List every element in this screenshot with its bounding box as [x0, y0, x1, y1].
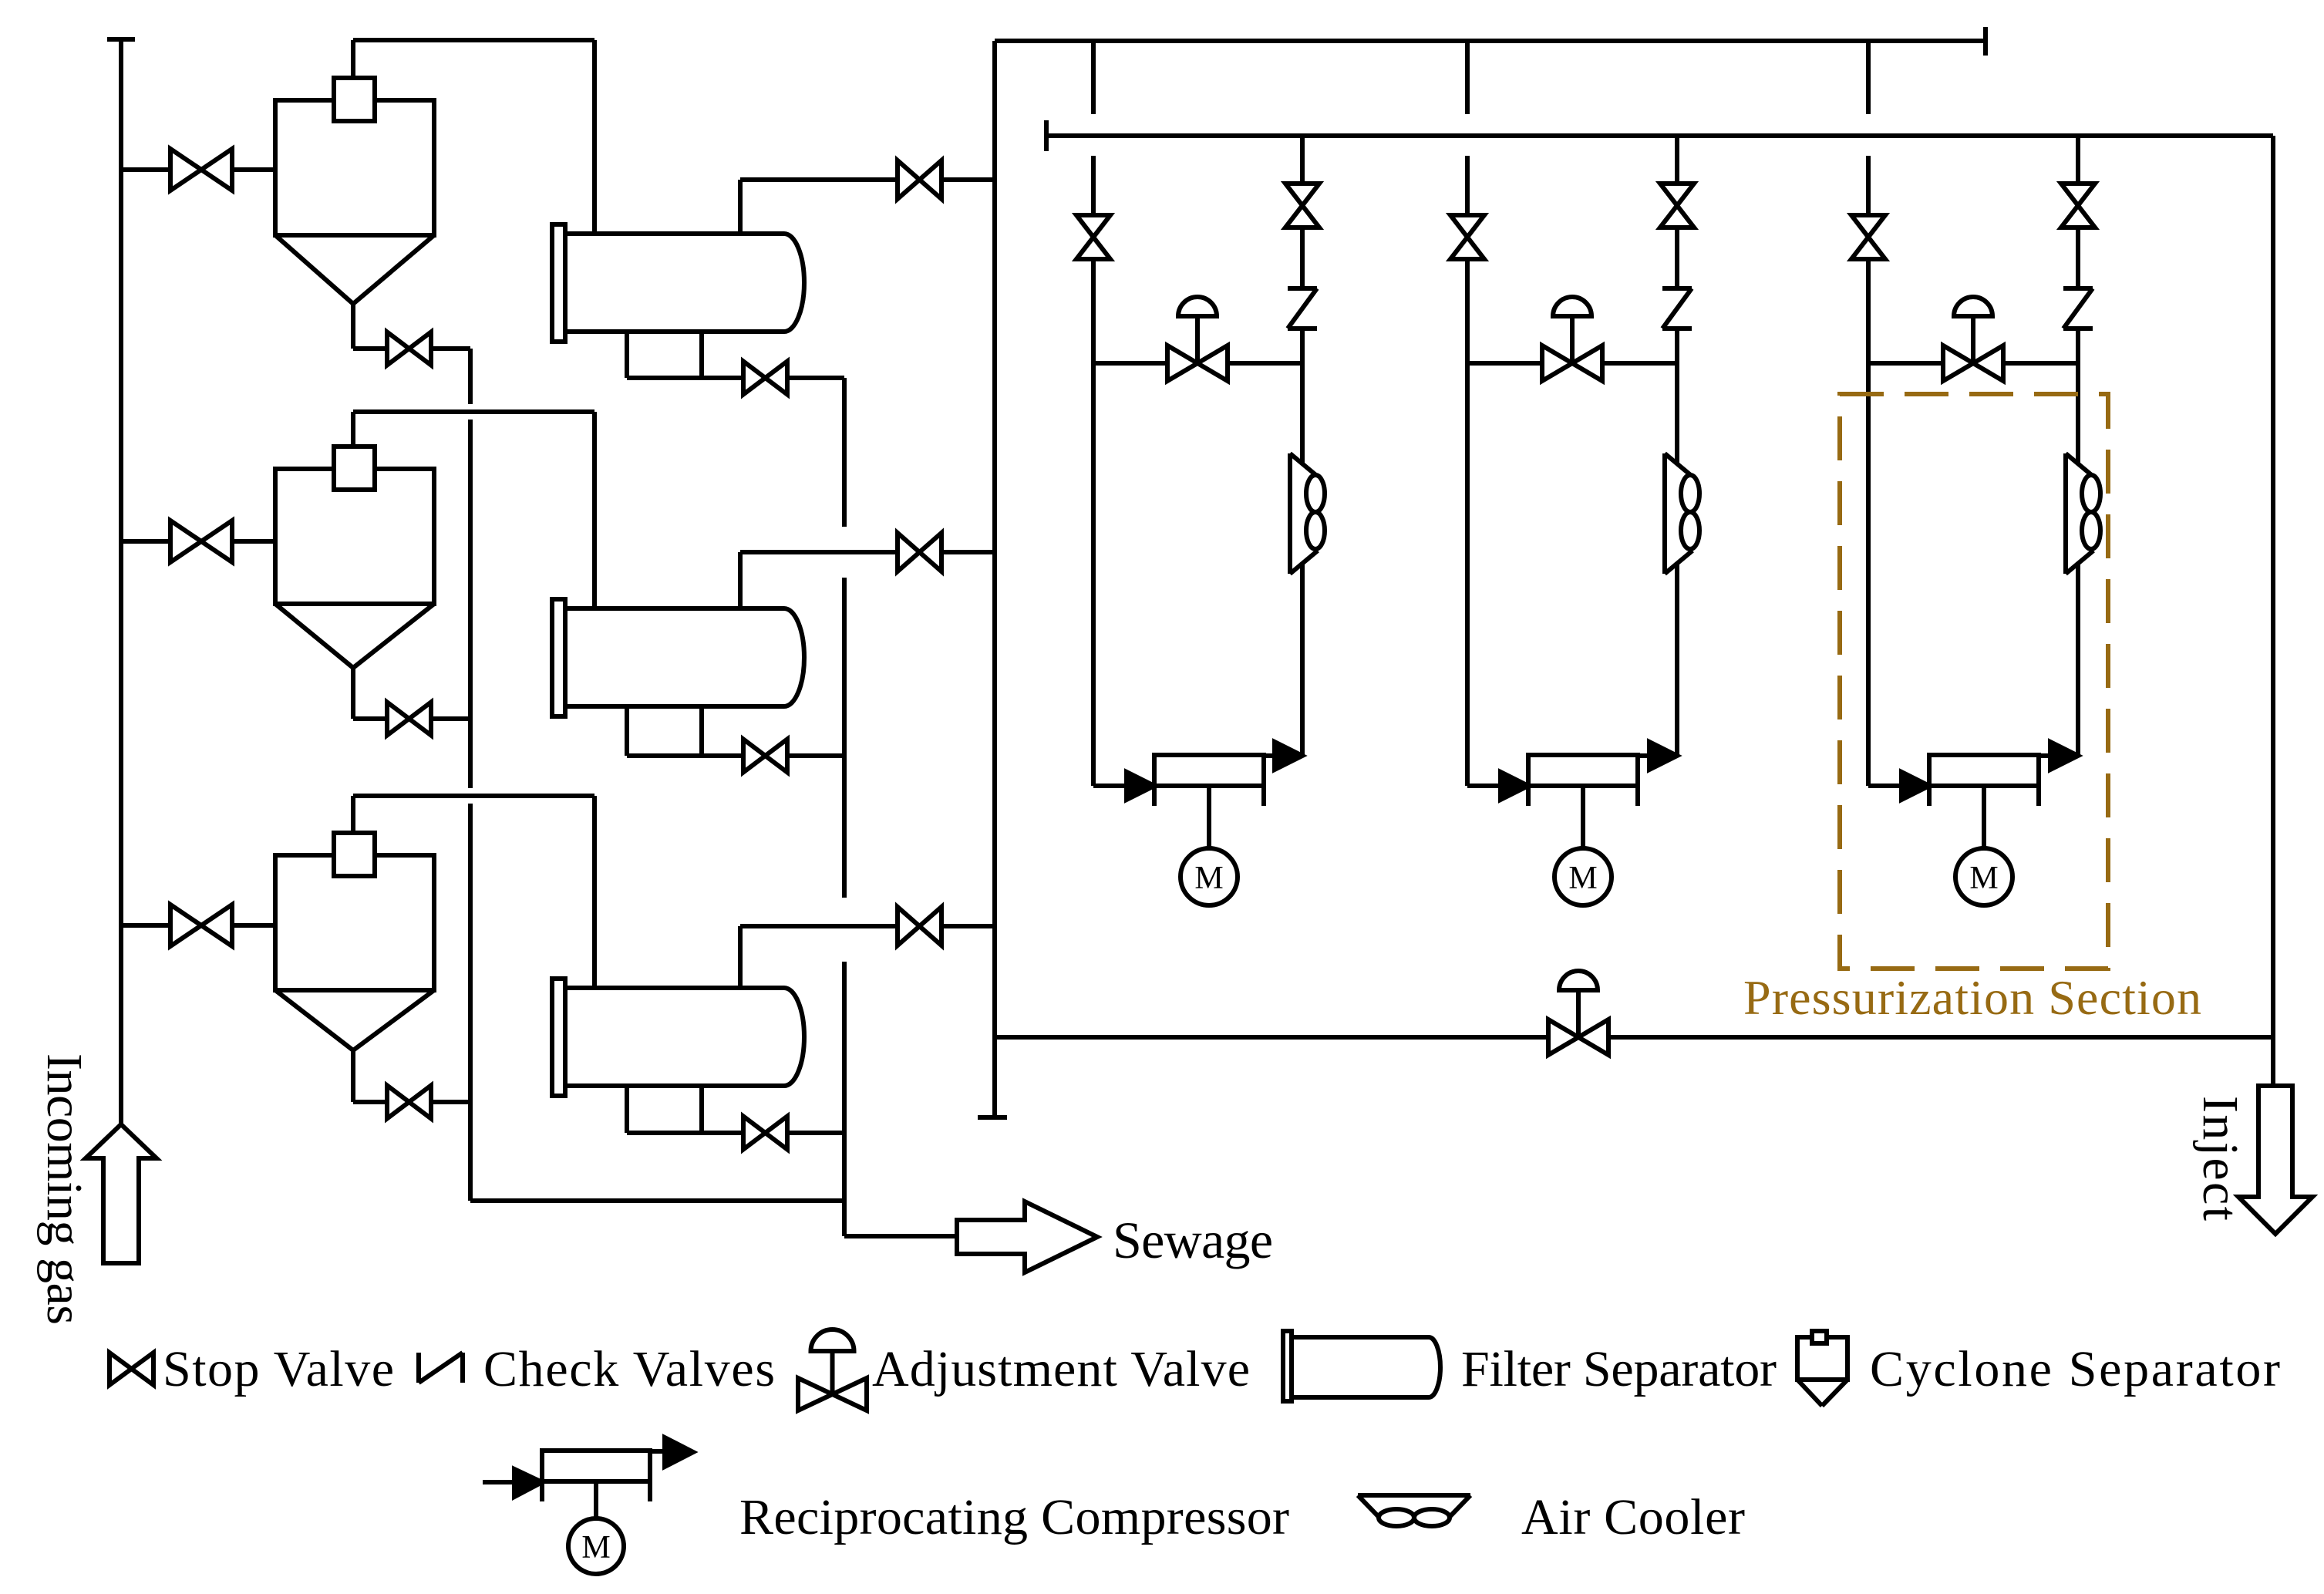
stop valve: cyclone 3 drain [387, 1086, 431, 1119]
legend: air cooler symbol [1358, 1495, 1470, 1526]
motor M1 [1181, 786, 1238, 905]
wire: incoming gas main header vertical [119, 39, 123, 1124]
stop valve: train 1 discharge [1285, 184, 1319, 227]
wire: cyclone drain header (segment 3) [468, 804, 473, 1201]
wire: filter 1 outlet riser [738, 180, 743, 234]
wire: filter 1 boot right leg [699, 332, 704, 378]
wire: filter drain header (segment 1) [842, 378, 847, 527]
wire: recycle line (right of valve) [1608, 1035, 2273, 1040]
legend: filter separator symbol [1283, 1331, 1440, 1401]
svg-text:Check Valves: Check Valves [483, 1341, 775, 1397]
stop valve: train 2 discharge [1660, 184, 1694, 227]
wire: train 2 discharge column mid [1675, 227, 1679, 288]
wire: cyclone 2 outlet riser [351, 412, 355, 447]
svg-text:Reciprocating Compressor: Reciprocating Compressor [739, 1489, 1289, 1545]
wire: train 1 suction stub from manifold [1091, 41, 1096, 114]
svg-text:Sewage: Sewage [1113, 1211, 1273, 1269]
adjustment valve: train 3 bypass [1943, 297, 2003, 381]
sewage arrow [957, 1201, 1097, 1272]
stop valve: train 2 suction [1450, 215, 1484, 259]
adjustment valve: train 1 bypass [1167, 297, 1228, 381]
wire: filter 3 inlet drop [592, 796, 597, 988]
svg-text:M: M [1568, 861, 1597, 896]
adjustment valve: recycle [1548, 971, 1608, 1055]
wire: suction header vertical [992, 41, 997, 1116]
wire: train 2 bypass line left [1467, 361, 1542, 366]
svg-text:Stop Valve: Stop Valve [163, 1341, 394, 1397]
stop valve: train 3 suction [1851, 215, 1885, 259]
wire: train 2 suction column lower [1465, 259, 1470, 786]
wire: cyclone drain header (segment 2) [468, 420, 473, 788]
wire: filter 3 boot left leg [625, 1086, 629, 1133]
wire: cyclone 3 drain run [353, 1100, 387, 1104]
svg-text:Filter Separator: Filter Separator [1461, 1341, 1777, 1397]
wire: filter 3 outlet riser [738, 926, 743, 988]
wire: filter 3 outlet to suction header [941, 924, 995, 928]
reciprocating compressor K2 [1467, 742, 1677, 806]
wire: train 1 discharge column mid [1300, 227, 1305, 288]
wire: inlet branch 2 (valve to cyclone) [232, 539, 275, 544]
svg-text:M: M [1969, 861, 1998, 896]
wire: train 3 discharge column mid [2076, 227, 2080, 288]
wire: train 2 discharge column to cooler [1675, 329, 1679, 463]
wire: filter 2 boot left leg [625, 706, 629, 756]
wire: cyclone 3 outlet top run [353, 794, 594, 798]
wire: suction manifold (top) [995, 39, 1986, 43]
wire: filter 1 outlet run [740, 177, 898, 182]
stop valve: train 3 discharge [2061, 184, 2095, 227]
stop valve: filter 3 drain [743, 1117, 787, 1150]
wire: train 1 discharge column below cooler [1300, 564, 1305, 756]
wire: train 2 bypass line right [1602, 361, 1677, 366]
cyclone separator CS1 [275, 78, 434, 304]
motor M3 [1955, 786, 2012, 905]
wire: filter 3 outlet run [740, 924, 898, 928]
wire: train 2 suction stub from manifold [1465, 41, 1470, 114]
svg-text:Inject: Inject [2192, 1096, 2248, 1221]
wire: cyclone 3 outlet riser [351, 796, 355, 833]
wire: filter 3 boot right leg [699, 1086, 704, 1133]
node: suction manifold end tick [1983, 27, 1988, 56]
wire: cyclone 3 drain to header [431, 1100, 470, 1104]
wire: train 1 suction column upper [1091, 156, 1096, 215]
legend: cyclone separator symbol [1797, 1331, 1847, 1406]
stop valve: train 1 suction [1076, 215, 1110, 259]
wire: train 3 suction stub from manifold [1866, 41, 1871, 114]
wire: cyclone 1 outlet riser [351, 40, 355, 78]
air cooler AC3 [2066, 453, 2100, 574]
wire: recycle line (left of valve) [995, 1035, 1548, 1040]
wire: cyclone 2 drain to header [431, 716, 470, 721]
wire: filter drain header (segment 2) [842, 578, 847, 898]
filter separator FS2 [552, 599, 804, 716]
wire: cyclone 2 outlet top run [353, 409, 594, 414]
wire: filter 3 drain to header [787, 1131, 844, 1135]
wire: filter drain header (segment 3) [842, 962, 847, 1236]
wire: filter 2 outlet to suction header [941, 550, 995, 554]
inject arrow [2238, 1086, 2312, 1234]
wire: filter 1 outlet to suction header [941, 177, 995, 182]
wire: cyclone 2 drain drop [351, 668, 355, 719]
wire: filter 1 drain to header [787, 376, 844, 380]
wire: inlet branch 3 (valve to cyclone) [232, 923, 275, 928]
reciprocating compressor K3 [1868, 742, 2078, 806]
wire: train 1 suction column lower [1091, 259, 1096, 786]
node: pressurization section dashed box [1840, 394, 2108, 969]
wire: filter 2 outlet run [740, 550, 898, 554]
adjustment valve: train 2 bypass [1542, 297, 1602, 381]
node: discharge manifold end tick [1044, 120, 1049, 151]
wire: train 3 discharge column below cooler [2076, 564, 2080, 756]
wire: inlet branch 1 (valve to cyclone) [232, 167, 275, 172]
svg-text:M: M [1194, 861, 1223, 896]
node: suction header bottom tick [978, 1115, 1007, 1120]
stop valve: cyclone 2 inlet [170, 521, 232, 562]
motor M2 [1554, 786, 1612, 905]
wire: train 3 bypass line left [1868, 361, 1943, 366]
wire: train 2 suction column upper [1465, 156, 1470, 215]
wire: inlet branch 2 (header to stop valve) [121, 539, 170, 544]
wire: filter 2 drain run [627, 753, 743, 758]
wire: cyclone 1 outlet top run [353, 38, 594, 42]
cyclone separator CS3 [275, 833, 434, 1050]
wire: inlet branch 3 (header to stop valve) [121, 923, 170, 928]
legend: check valve symbol [419, 1353, 463, 1383]
wire: train 3 discharge column top [2076, 136, 2080, 184]
stop valve: cyclone 3 inlet [170, 905, 232, 946]
svg-text:Pressurization Section: Pressurization Section [1743, 970, 2201, 1025]
check valve: train 1 discharge [1288, 288, 1317, 329]
wire: train 2 discharge column top [1675, 136, 1679, 184]
stop valve: filter 3 outlet [898, 907, 941, 945]
check valve: train 2 discharge [1662, 288, 1692, 329]
wire: filter 2 drain to header [787, 753, 844, 758]
svg-text:Cyclone Separator: Cyclone Separator [1870, 1341, 2280, 1397]
wire: cyclone 1 drain run [353, 346, 387, 351]
svg-text:M: M [581, 1530, 610, 1565]
reciprocating compressor K1 [1093, 742, 1302, 806]
wire: cyclone 3 drain drop [351, 1050, 355, 1102]
stop valve: filter 1 outlet [898, 160, 941, 199]
legend: stop valve symbol [109, 1353, 153, 1385]
wire: train 3 discharge column to cooler [2076, 329, 2080, 463]
wire: filter 1 boot left leg [625, 332, 629, 378]
filter separator FS3 [552, 979, 804, 1096]
wire: cyclone 2 drain run [353, 716, 387, 721]
wire: filter 1 inlet drop [592, 40, 597, 234]
wire: train 2 discharge column below cooler [1675, 564, 1679, 756]
check valve: train 3 discharge [2063, 288, 2093, 329]
svg-text:Adjustment Valve: Adjustment Valve [872, 1341, 1250, 1397]
air cooler AC2 [1665, 453, 1699, 574]
svg-text:Air Cooler: Air Cooler [1521, 1489, 1745, 1545]
stop valve: cyclone 1 drain [387, 332, 431, 366]
node: incoming gas header end tick [107, 37, 135, 42]
wire: filter 2 outlet riser [738, 552, 743, 608]
cyclone separator CS2 [275, 447, 434, 668]
wire: filter 3 drain run [627, 1131, 743, 1135]
svg-text:Incoming gas: Incoming gas [36, 1053, 93, 1325]
wire: filter 2 boot right leg [699, 706, 704, 756]
stop valve: filter 2 drain [743, 740, 787, 773]
wire: train 3 bypass line right [2003, 361, 2078, 366]
stop valve: filter 1 drain [743, 362, 787, 395]
wire: train 1 bypass line right [1228, 361, 1302, 366]
wire: cyclone drain header bottom run [470, 1198, 844, 1203]
incoming gas arrow [86, 1124, 157, 1263]
wire: cyclone drain header (segment 1) [468, 349, 473, 404]
wire: inlet branch 1 (header to stop valve) [121, 167, 170, 172]
legend: adjustment valve symbol [798, 1329, 867, 1410]
wire: train 1 discharge column top [1300, 136, 1305, 184]
wire: train 3 suction column upper [1866, 156, 1871, 215]
wire: filter 1 drain run [627, 376, 743, 380]
stop valve: cyclone 2 drain [387, 703, 431, 736]
wire: sewage run [844, 1234, 957, 1238]
filter separator FS1 [552, 224, 804, 342]
wire: filter 2 inlet drop [592, 412, 597, 608]
wire: cyclone 1 drain to header [431, 346, 470, 351]
stop valve: filter 2 outlet [898, 533, 941, 571]
wire: cyclone 1 drain drop [351, 304, 355, 349]
wire: train 1 discharge column to cooler [1300, 329, 1305, 463]
legend: reciprocating compressor symbol [483, 1437, 693, 1574]
wire: discharge manifold right drop [2271, 136, 2275, 1086]
wire: train 3 suction column lower [1866, 259, 1871, 786]
stop valve: cyclone 1 inlet [170, 149, 232, 190]
wire: discharge manifold [1046, 133, 2273, 138]
wire: train 1 bypass line left [1093, 361, 1167, 366]
air cooler AC1 [1290, 453, 1325, 574]
